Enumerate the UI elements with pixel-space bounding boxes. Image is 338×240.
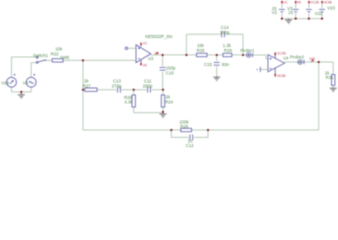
svg-text:4.3k: 4.3k [124, 100, 133, 105]
power pin VC2B [308, 0, 319, 4]
svg-text:R29: R29 [224, 48, 232, 53]
wire U3 open input stub [128, 47, 136, 49]
svg-text:270p: 270p [112, 84, 122, 89]
junction feedback right [242, 54, 244, 56]
capacitor C10 [159, 66, 166, 71]
svg-text:SW5: SW5 [60, 55, 70, 60]
junction source ground [20, 91, 22, 93]
svg-text:VE: VE [143, 64, 148, 68]
U3 output pin marker [155, 51, 158, 55]
resistor R26 [181, 128, 192, 131]
svg-text:V2: V2 [272, 10, 278, 15]
svg-text:C10: C10 [166, 71, 174, 76]
svg-text:C12: C12 [186, 143, 194, 148]
svg-text:VE3B: VE3B [323, 0, 332, 4]
capacitor C13 [116, 86, 121, 93]
svg-text:VE3B: VE3B [277, 74, 286, 78]
battery V23 [319, 8, 326, 13]
svg-text:VC: VC [143, 42, 148, 46]
wire power branch V23 [321, 4, 323, 19]
power pin VE [295, 0, 302, 4]
svg-text:JVE: JVE [309, 57, 316, 61]
ground R24 [160, 113, 167, 118]
power pin VC [281, 0, 288, 4]
U3 open input bubble [125, 47, 127, 49]
wire C10 vertical [162, 55, 164, 90]
junction C10 bottom [162, 89, 164, 91]
svg-text:10k: 10k [55, 46, 63, 51]
svg-text:R31: R31 [326, 75, 334, 80]
svg-text:R26: R26 [180, 124, 188, 129]
U4 VEE pin arrow [274, 73, 286, 78]
probe symbol Probe1 [246, 53, 252, 57]
wire source bottoms to ground node [12, 87, 32, 92]
wire R22 to op-amp U3 input [63, 59, 136, 61]
wire op-amp U3 output run [151, 54, 243, 56]
svg-text:R24: R24 [165, 100, 173, 105]
wire R24 stubs [162, 90, 164, 113]
wire R28 bottom to R24 bottom [134, 90, 163, 113]
svg-text:15: 15 [288, 10, 293, 15]
wire U4 output run [285, 61, 334, 63]
resistor R22 [52, 59, 63, 62]
junction Probe2 [318, 61, 320, 63]
junction power V3 [295, 18, 297, 20]
junction U3 output [162, 54, 164, 56]
wire C12 loop [171, 130, 208, 137]
svg-text:V24: V24 [1, 80, 9, 85]
capacitor C15 [213, 61, 220, 66]
capacitor C11 [146, 86, 151, 93]
resistor R31 [332, 75, 335, 86]
junction rail right R26 [207, 129, 209, 131]
wire input branch y=90 [83, 89, 163, 91]
wire feedback left vertical [185, 34, 187, 55]
resistor R29 [223, 53, 232, 56]
junction power V2 [281, 18, 283, 20]
wire left vertical drop [82, 60, 84, 130]
wire feedback right vertical [242, 34, 244, 55]
svg-text:Probe2: Probe2 [290, 55, 304, 60]
wire power branch V2 [281, 4, 283, 19]
wire V5 top to switch [31, 63, 36, 78]
ground power rail [285, 19, 292, 24]
switch Switch1 [36, 57, 46, 64]
junction feedback left [185, 54, 187, 56]
resistor R27 [85, 88, 97, 91]
junction R28 top [133, 89, 135, 91]
node marker JVE [309, 57, 316, 61]
svg-text:VC2B: VC2B [310, 0, 320, 4]
resistor R25 [197, 53, 208, 56]
svg-text:R27: R27 [83, 84, 91, 89]
junction input branch [82, 89, 84, 91]
resistor R24 [161, 95, 164, 107]
battery V2 [279, 8, 286, 13]
battery V22 [306, 8, 313, 13]
U4 open input bubble [257, 67, 261, 72]
wire V24 top to switch [12, 57, 36, 78]
svg-text:VC: VC [283, 0, 288, 4]
wire to op-amp U4 + input [243, 55, 268, 59]
wire switch pole to R22 [46, 59, 52, 61]
resistor R28 [132, 95, 135, 107]
wire C15 branch [216, 55, 218, 76]
capacitor C14 [220, 31, 225, 38]
probe symbol Probe2 [298, 60, 304, 64]
svg-text:V5: V5 [23, 80, 29, 85]
junction C15 top [216, 54, 218, 56]
svg-text:R25: R25 [197, 48, 205, 53]
wire power rail top right [282, 18, 322, 20]
voltage source V5 [26, 74, 36, 87]
voltage source V24 [7, 74, 17, 87]
svg-text:300p: 300p [220, 30, 230, 35]
junction rail left R26 [170, 129, 172, 131]
U4 VCC pin arrow [274, 51, 286, 55]
U3 VCC pin arrow [140, 42, 148, 46]
wire feedback top [186, 33, 243, 35]
op-amp U3 [136, 43, 151, 64]
svg-text:R22: R22 [51, 52, 59, 57]
power pin VE3B [321, 0, 332, 4]
svg-text:200p: 200p [143, 84, 153, 89]
svg-text:83n: 83n [222, 62, 230, 67]
U3 VEE pin arrow [140, 62, 148, 67]
capacitor C12 [189, 134, 194, 141]
svg-text:VE: VE [297, 0, 302, 4]
wire right vertical drop [318, 62, 320, 130]
wire power branch V3 [295, 4, 297, 19]
wire R31 stubs [332, 62, 334, 88]
wire power branch V22 [308, 4, 310, 19]
wire bottom rail [83, 129, 319, 131]
junction R24 bottom [162, 111, 164, 113]
svg-text:V22: V22 [315, 11, 323, 16]
svg-text:6: 6 [155, 51, 157, 55]
svg-text:V23: V23 [327, 5, 335, 10]
battery V3 [292, 8, 299, 13]
ground R31 [330, 88, 337, 92]
ground C15 [213, 76, 220, 80]
svg-text:NE5532P_6N: NE5532P_6N [145, 34, 172, 39]
op-amp U4 [268, 53, 285, 75]
junction power V22 [308, 18, 310, 20]
svg-text:Probe1: Probe1 [240, 48, 254, 53]
svg-text:U3: U3 [148, 56, 154, 61]
wire U4 minus stub [260, 68, 268, 70]
svg-text:C15: C15 [204, 62, 212, 67]
junction node SW5 [82, 59, 84, 61]
svg-text:Switch1: Switch1 [33, 53, 49, 58]
junction power V23 [321, 18, 323, 20]
svg-text:U4: U4 [283, 55, 289, 60]
ground source block [18, 92, 25, 98]
